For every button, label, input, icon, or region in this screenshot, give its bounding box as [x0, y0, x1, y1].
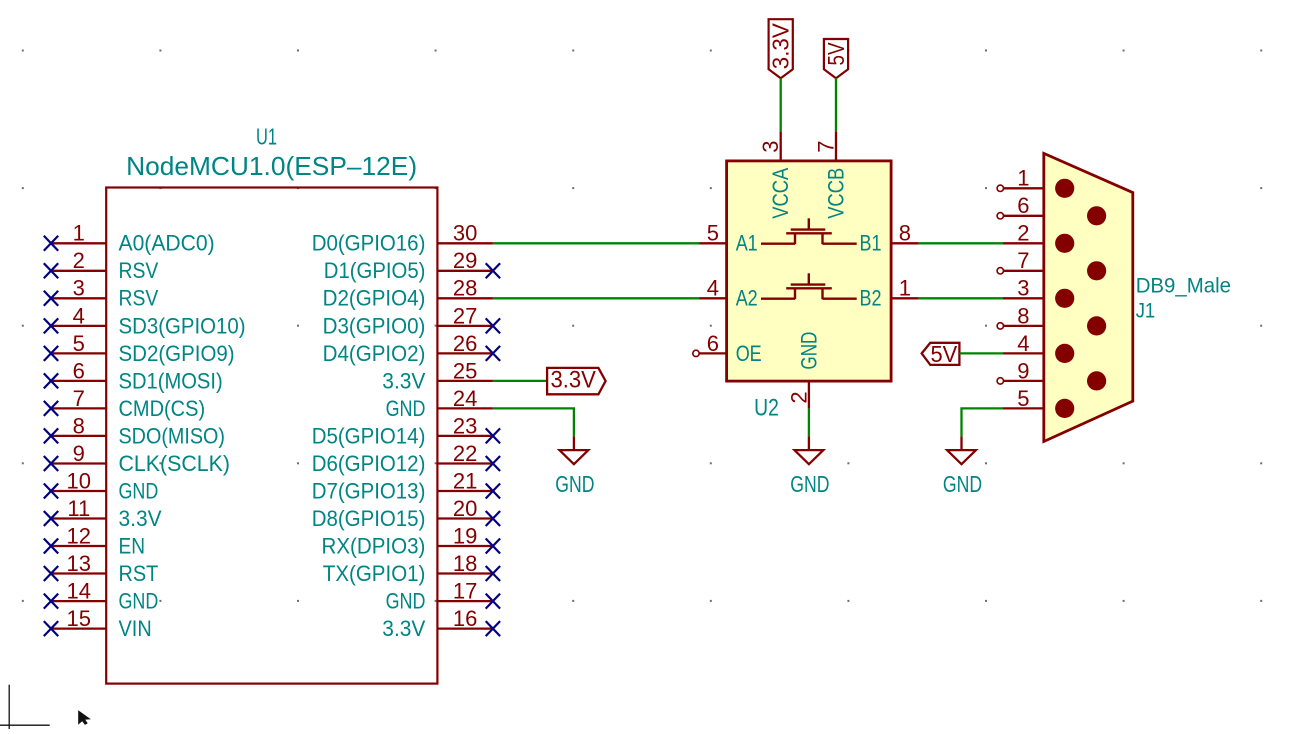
- U1 pin 28 D2(GPIO4): [323, 276, 493, 311]
- U1 pin 25 3.3V: [382, 358, 493, 393]
- svg-text:GND: GND: [790, 471, 829, 497]
- U1 pin 16 3.3V: [382, 606, 500, 641]
- svg-text:23: 23: [453, 413, 477, 438]
- U1 pin 19 RX(DPIO3): [322, 523, 501, 558]
- svg-text:OE: OE: [736, 341, 762, 366]
- svg-text:4: 4: [707, 276, 719, 301]
- U1 pin 11 3.3V: [44, 496, 162, 531]
- svg-text:NodeMCU1.0(ESP–12E): NodeMCU1.0(ESP–12E): [126, 151, 417, 181]
- U2 pin 2 GND: [786, 332, 821, 409]
- wire U2 B2 to J1 pin3: [919, 297, 1003, 299]
- IC U1 NodeMCU1.0(ESP-12E) body: [106, 188, 437, 684]
- sheet frame corner: [0, 685, 50, 729]
- svg-text:DB9_Male: DB9_Male: [1136, 275, 1231, 298]
- svg-text:2: 2: [1017, 221, 1029, 246]
- svg-text:D5(GPIO14): D5(GPIO14): [312, 423, 426, 448]
- wire U2 B1 to J1 pin2: [919, 242, 1003, 244]
- U1 pin 13 RST: [44, 551, 159, 586]
- svg-text:7: 7: [1017, 248, 1029, 273]
- svg-text:GND: GND: [386, 396, 426, 421]
- J1 pin 3: [1003, 276, 1074, 308]
- svg-text:TX(GPIO1): TX(GPIO1): [323, 561, 426, 586]
- svg-text:SD2(GPIO9): SD2(GPIO9): [119, 341, 235, 366]
- svg-text:8: 8: [899, 221, 911, 246]
- J1 pin 2: [1003, 221, 1074, 253]
- svg-text:16: 16: [453, 606, 477, 631]
- svg-text:29: 29: [453, 248, 477, 273]
- svg-text:CMD(CS): CMD(CS): [119, 396, 206, 421]
- svg-text:5V: 5V: [823, 42, 849, 66]
- wire 5V flag to U2 pin7: [835, 78, 837, 131]
- ground symbol GND (U2 pin2): [790, 436, 829, 497]
- U2 pin 7 VCCB: [814, 131, 849, 219]
- svg-text:2: 2: [73, 248, 85, 273]
- svg-text:3.3V: 3.3V: [551, 367, 596, 394]
- wire J1 pin5 to GND: [962, 408, 1004, 436]
- svg-text:6: 6: [1017, 193, 1029, 218]
- svg-text:D0(GPIO16): D0(GPIO16): [312, 231, 426, 256]
- U1 pin 27 D3(GPIO0): [323, 303, 501, 338]
- svg-text:8: 8: [73, 413, 85, 438]
- svg-text:3: 3: [73, 276, 85, 301]
- svg-text:24: 24: [453, 386, 477, 411]
- svg-text:4: 4: [73, 303, 85, 328]
- svg-text:7: 7: [73, 386, 85, 411]
- power symbol 3.3V: [768, 19, 794, 78]
- ground symbol GND (U1 pin24): [555, 436, 594, 497]
- svg-text:GND: GND: [555, 471, 594, 497]
- J1 pin 5: [1003, 386, 1074, 418]
- svg-text:RX(DPIO3): RX(DPIO3): [322, 533, 426, 558]
- svg-text:D6(GPIO12): D6(GPIO12): [312, 451, 426, 476]
- wire U1 pin30 to U2 A1: [493, 242, 699, 244]
- grid dots: [22, 50, 1262, 602]
- U1 pin 3 RSV: [44, 276, 159, 311]
- svg-text:1: 1: [899, 276, 911, 301]
- svg-text:20: 20: [453, 496, 477, 521]
- U1 pin 12 EN: [44, 523, 145, 558]
- svg-text:A2: A2: [736, 286, 758, 311]
- svg-text:EN: EN: [119, 533, 146, 558]
- svg-text:U1: U1: [256, 123, 277, 149]
- svg-text:8: 8: [1017, 303, 1029, 328]
- svg-text:RST: RST: [119, 561, 159, 586]
- svg-text:5V: 5V: [931, 341, 958, 367]
- svg-text:2: 2: [786, 391, 811, 403]
- U1 pin 18 TX(GPIO1): [323, 551, 500, 586]
- U1 pin 24 GND: [386, 386, 493, 421]
- svg-text:3.3V: 3.3V: [119, 506, 162, 531]
- svg-text:SD1(MOSI): SD1(MOSI): [119, 368, 223, 393]
- J1 pin 7: [997, 248, 1106, 280]
- mouse cursor: [78, 710, 91, 725]
- svg-text:3.3V: 3.3V: [382, 368, 425, 393]
- svg-text:6: 6: [73, 358, 85, 383]
- svg-text:1: 1: [1017, 166, 1029, 191]
- U1 pin 10 GND: [44, 468, 159, 503]
- wire U1 pin25 to 3.3V label: [493, 380, 547, 382]
- U2 pin 6 OE (unconnected): [693, 331, 762, 366]
- svg-text:GND: GND: [119, 478, 159, 503]
- svg-text:11: 11: [67, 496, 90, 521]
- svg-text:RSV: RSV: [119, 286, 159, 311]
- svg-text:14: 14: [67, 579, 91, 604]
- svg-text:5: 5: [1017, 386, 1029, 411]
- U2 pin 4 A2: [699, 276, 758, 311]
- connector J1 DB9_Male body: [1044, 153, 1133, 441]
- U1 pin 20 D8(GPIO15): [312, 496, 500, 531]
- global label 5V (net 5V): [922, 341, 960, 367]
- svg-text:U2: U2: [754, 395, 779, 422]
- U1 pin 15 VIN: [44, 606, 152, 641]
- svg-text:10: 10: [67, 468, 91, 493]
- svg-text:19: 19: [453, 523, 477, 548]
- svg-text:SD3(GPIO10): SD3(GPIO10): [119, 313, 246, 338]
- svg-text:A0(ADC0): A0(ADC0): [119, 231, 215, 256]
- U1 pin 23 D5(GPIO14): [312, 413, 500, 448]
- svg-text:5: 5: [707, 221, 719, 246]
- global label 3.3V (net 3.3V): [547, 367, 606, 395]
- svg-text:B2: B2: [860, 286, 882, 311]
- wire 5V label to J1 pin4: [959, 352, 1003, 354]
- U1 pin 6 SD1(MOSI): [44, 358, 223, 393]
- U1 pin 17 GND: [386, 579, 501, 614]
- svg-text:RSV: RSV: [119, 258, 159, 283]
- J1 pin 9: [997, 358, 1106, 390]
- svg-text:D2(GPIO4): D2(GPIO4): [323, 286, 426, 311]
- transistor Q pass-gate A1-B1: [761, 218, 857, 244]
- U1 pin 26 D4(GPIO2): [323, 331, 501, 366]
- svg-text:VCCB: VCCB: [823, 168, 848, 219]
- U1 pin 5 SD2(GPIO9): [44, 331, 235, 366]
- svg-text:GND: GND: [943, 471, 982, 497]
- svg-text:6: 6: [707, 331, 719, 356]
- U1 pin 2 RSV: [44, 248, 159, 283]
- power symbol 5V: [823, 39, 849, 78]
- J1 pin 1: [997, 166, 1074, 198]
- svg-text:26: 26: [453, 331, 477, 356]
- svg-text:28: 28: [453, 276, 477, 301]
- U2 pin 5 A1: [699, 221, 758, 256]
- svg-text:CLK(SCLK): CLK(SCLK): [119, 451, 231, 476]
- svg-text:D8(GPIO15): D8(GPIO15): [312, 506, 426, 531]
- svg-text:D7(GPIO13): D7(GPIO13): [312, 478, 426, 503]
- svg-text:VCCA: VCCA: [768, 168, 793, 219]
- svg-text:22: 22: [453, 441, 477, 466]
- svg-text:GND: GND: [386, 589, 426, 614]
- svg-text:SDO(MISO): SDO(MISO): [119, 423, 226, 448]
- svg-text:3.3V: 3.3V: [768, 23, 794, 70]
- svg-text:GND: GND: [797, 332, 822, 370]
- U1 pin 1 A0(ADC0): [44, 221, 215, 256]
- wire 3.3V flag to U2 pin3: [780, 78, 782, 131]
- ground symbol GND (J1 pin5): [943, 436, 982, 497]
- U1 pin 30 D0(GPIO16): [312, 221, 493, 256]
- svg-text:3: 3: [1017, 276, 1029, 301]
- svg-text:12: 12: [67, 523, 91, 548]
- svg-text:VIN: VIN: [119, 616, 152, 641]
- wire U1 pin24 to GND: [493, 408, 574, 436]
- svg-text:5: 5: [73, 331, 85, 356]
- U2 pin 8 B1: [860, 221, 919, 256]
- svg-text:J1: J1: [1136, 300, 1156, 323]
- svg-text:9: 9: [1017, 358, 1029, 383]
- J1 pin 4: [1003, 331, 1074, 363]
- wire U2 pin2 to GND: [808, 408, 810, 436]
- svg-text:7: 7: [814, 140, 839, 152]
- U1 pin 29 D1(GPIO5): [324, 248, 500, 283]
- U2 pin 3 VCCA: [758, 131, 793, 219]
- svg-text:25: 25: [453, 358, 477, 383]
- transistor Q pass-gate A2-B2: [761, 273, 857, 299]
- svg-text:GND: GND: [119, 589, 159, 614]
- wire U1 pin28 to U2 A2: [493, 297, 699, 299]
- U1 pin 14 GND: [44, 579, 159, 614]
- svg-text:D4(GPIO2): D4(GPIO2): [323, 341, 426, 366]
- U1 pin 21 D7(GPIO13): [312, 468, 500, 503]
- J1 pin 6: [997, 193, 1106, 225]
- svg-text:9: 9: [73, 441, 85, 466]
- svg-text:18: 18: [453, 551, 477, 576]
- svg-text:D3(GPIO0): D3(GPIO0): [323, 313, 426, 338]
- IC U2 level-shifter body: [727, 161, 892, 381]
- U2 pin 1 B2: [860, 276, 919, 311]
- J1 pin 8: [997, 303, 1106, 335]
- svg-text:13: 13: [67, 551, 91, 576]
- svg-text:1: 1: [73, 221, 85, 246]
- U1 pin 7 CMD(CS): [44, 386, 205, 421]
- svg-text:27: 27: [453, 303, 477, 328]
- U1 pin 9 CLK(SCLK): [44, 441, 230, 476]
- svg-text:A1: A1: [736, 231, 758, 256]
- U1 pin 4 SD3(GPIO10): [44, 303, 246, 338]
- U1 pin 22 D6(GPIO12): [312, 441, 500, 476]
- svg-text:4: 4: [1017, 331, 1029, 356]
- svg-text:3: 3: [758, 140, 783, 152]
- U1 pin 8 SDO(MISO): [44, 413, 225, 448]
- svg-text:D1(GPIO5): D1(GPIO5): [324, 258, 426, 283]
- svg-text:3.3V: 3.3V: [382, 616, 425, 641]
- svg-text:B1: B1: [860, 231, 882, 256]
- svg-text:30: 30: [453, 221, 477, 246]
- svg-text:21: 21: [453, 468, 477, 493]
- svg-text:17: 17: [453, 579, 477, 604]
- svg-text:15: 15: [67, 606, 91, 631]
